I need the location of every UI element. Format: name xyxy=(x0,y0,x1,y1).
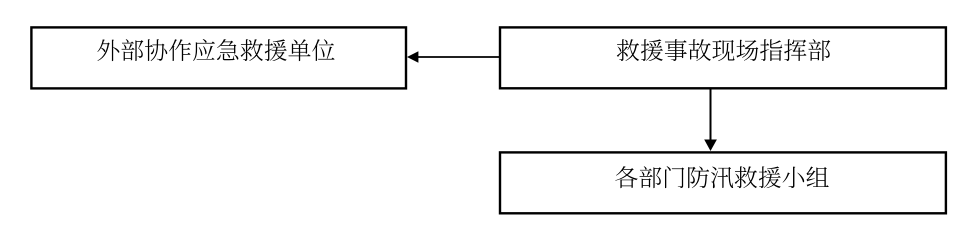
arrowhead pointing down at box3 xyxy=(704,140,717,152)
arrowhead pointing left at box1 xyxy=(407,51,418,63)
wire: horizontal arrow shaft from box2 to box1 xyxy=(418,56,500,58)
box 3: department flood-control rescue teams xyxy=(500,152,946,213)
box2 label text: 救援事故现场指挥部 xyxy=(617,39,831,61)
box 2: rescue accident site command xyxy=(500,27,946,88)
box1 label text: 外部协作应急救援单位 xyxy=(97,39,334,61)
wire: vertical arrow shaft from box2 to box3 xyxy=(710,88,712,141)
box 1: external cooperation emergency rescue unit xyxy=(31,27,406,88)
box3 label text: 各部门防汛救援小组 xyxy=(615,166,829,188)
